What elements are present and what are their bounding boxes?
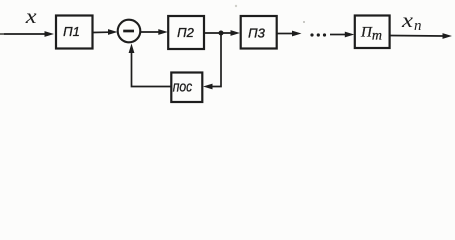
junction node (feedback tap) (219, 31, 224, 36)
svg-text:П1: П1 (63, 24, 80, 39)
svg-text:n: n (414, 18, 422, 34)
wire: output arrow with label x_n (390, 10, 452, 39)
wire: feedback tap down to ПОС (203, 33, 221, 89)
block П1 (56, 16, 93, 49)
block П2 (168, 16, 204, 49)
wire: summing junction to П2 (140, 29, 167, 35)
svg-text:П2: П2 (177, 25, 194, 40)
wire: П1 to summing junction (93, 29, 118, 35)
block П3 (241, 16, 277, 49)
svg-text:пос: пос (173, 79, 193, 96)
scan speck (235, 5, 237, 7)
svg-text:x: x (401, 10, 413, 32)
block Пm (355, 16, 390, 49)
wire: ellipsis to Пm (330, 32, 354, 38)
svg-text:x: x (25, 4, 38, 28)
summing junction (minus) (118, 20, 141, 43)
wire: П2 to П3 (204, 30, 240, 36)
scan smudge at left edge (0, 33, 4, 35)
block ПОС (171, 73, 202, 103)
ellipsis dots (310, 33, 326, 36)
wire: input arrow with label x (3, 4, 54, 37)
svg-text:П3: П3 (248, 25, 265, 40)
wire: ПОС back up to summing junction (129, 44, 172, 87)
scan speck (303, 21, 305, 23)
wire: П3 to ellipsis (277, 31, 302, 37)
